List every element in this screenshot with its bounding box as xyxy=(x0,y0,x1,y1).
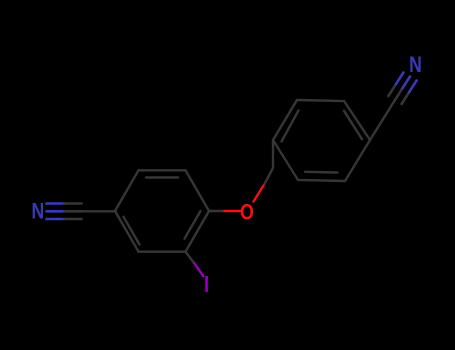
svg-text:N: N xyxy=(409,53,422,77)
ring2 inner double bond lines xyxy=(282,111,299,142)
svg-text:I: I xyxy=(204,272,209,297)
nitrile C1 triple bond gray half xyxy=(65,204,82,220)
bond ring1 BR to I : gray half xyxy=(186,252,195,263)
bond O to CH2 : gray half xyxy=(265,168,274,184)
bond ring1 BR to I : purple half xyxy=(194,263,203,276)
ring1 inner double bond lines xyxy=(146,176,178,178)
bond O to CH2 : red half xyxy=(254,184,265,202)
ring1 benzene xyxy=(115,170,209,251)
ring2 benzene xyxy=(273,100,370,181)
svg-text:O: O xyxy=(240,201,254,225)
bond CH2 to ring2 ipso xyxy=(272,140,274,168)
bond ring2 V to nitrile C2 xyxy=(370,100,395,140)
bond ring1 R to O : red half xyxy=(225,210,241,212)
bond C1 to ring1 left vertex xyxy=(82,210,116,212)
svg-text:N: N xyxy=(32,200,45,224)
bond ring1 R to O : gray half xyxy=(209,210,225,212)
nitrile C2 triple bond gray half xyxy=(388,84,409,104)
nitrile N1 triple bond (left), blue half xyxy=(47,204,65,220)
nitrile N2 triple bond blue half xyxy=(396,73,417,93)
